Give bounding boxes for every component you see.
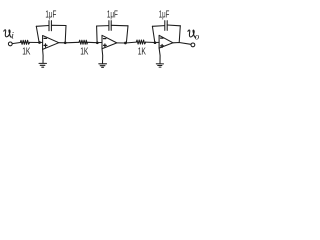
svg-text:o: o [195,31,200,41]
wire U3 plus to ground [159,48,160,63]
capacitor C3 [165,21,167,31]
output terminal [191,43,195,47]
U1 minus input mark [44,37,47,39]
resistor R3 [136,40,145,44]
wire U1 plus to ground [42,49,45,63]
node D junction dot [124,42,127,45]
node B junction dot [64,41,67,44]
wire feedback top right 2 [111,24,128,27]
node Vo output label [188,30,200,41]
U3 plus input mark [161,45,164,48]
capacitor C2 [109,21,111,31]
wire feedback left leg 3 [152,26,154,42]
wire node A to U1 [40,41,43,43]
U1 plus input mark [44,44,47,47]
wire R2 to node C [88,41,98,43]
value label 1uF (C1) [45,10,56,21]
ground 3 [156,64,163,67]
value label 1uF (C2) [107,10,118,21]
svg-text:1K: 1K [80,47,88,58]
wire feedback left leg 2 [96,26,99,42]
value label 1K (R2) [80,47,88,58]
op-amp U2 [102,35,117,48]
wire feedback top left 3 [152,25,164,28]
U3 minus input mark [161,37,163,39]
wire U1 output [59,41,79,44]
value label 1uF (C3) [159,10,170,21]
svg-text:1μF: 1μF [45,10,56,21]
op-amp U1 [43,36,59,50]
wire R1 to node A [30,41,40,43]
wire U3 output [173,43,191,45]
U2 minus input mark [104,38,106,40]
wire node C to U2 [97,42,102,44]
value label 1K (R3) [138,47,146,58]
wire feedback left leg 1 [36,26,39,42]
op-amp U3 [159,35,173,48]
wire U2 output [117,41,137,44]
ground 1 [39,63,47,67]
svg-text:1μF: 1μF [107,10,118,21]
wire R3 to node E [146,41,155,43]
svg-text:1μF: 1μF [159,10,170,21]
wire feedback top left 2 [97,25,109,27]
wire U2 plus to ground [101,49,104,64]
wire feedback top right 3 [167,24,180,27]
capacitor C1 [49,21,51,31]
wire feedback right leg 3 [179,26,180,43]
wire feedback top right 1 [51,24,66,26]
wire feedback right leg 1 [64,26,67,43]
svg-text:1K: 1K [138,47,146,58]
node Vi input label [4,30,15,41]
resistor R1 [20,40,29,44]
wire node E to U3 [155,41,159,43]
U2 plus input mark [104,44,107,47]
node E junction dot [154,41,157,44]
ground 2 [99,64,107,68]
wire feedback right leg 2 [126,26,128,43]
node A junction dot [38,41,41,44]
wire input to R1 [12,43,20,44]
wire feedback top left 1 [36,25,49,28]
input terminal [8,42,12,46]
resistor R2 [79,40,88,44]
svg-text:1K: 1K [22,47,30,58]
value label 1K (R1) [22,47,30,58]
node C junction dot [96,41,99,44]
